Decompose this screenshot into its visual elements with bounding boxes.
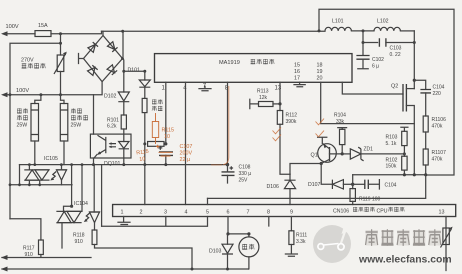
wire: R1107 to bottom node — [425, 165, 427, 175]
triac IC105 stubs — [29, 165, 39, 185]
svg-text:6.2k: 6.2k — [107, 124, 117, 130]
varistor arrow — [54, 53, 66, 74]
svg-text:R111: R111 — [296, 233, 307, 239]
svg-text:IC105: IC105 — [44, 156, 58, 162]
SCR element right of IC104 — [90, 211, 100, 213]
svg-text:Q2: Q2 — [391, 84, 398, 90]
svg-text:R119 100: R119 100 — [359, 196, 381, 202]
wire: main DC rail y=31 to L101 junction — [102, 30, 326, 32]
wire: AC input left arrow at y=33.7 — [1, 31, 8, 36]
wire: fuse to bridge top corner — [51, 31, 103, 35]
fan M101 风扇 — [239, 237, 259, 257]
resistor R119 body — [352, 184, 354, 188]
svg-text:470k: 470k — [432, 123, 443, 129]
capacitor C107 plates — [159, 152, 173, 156]
node dot branch to D101 — [122, 70, 125, 73]
svg-text:100V: 100V — [6, 24, 19, 30]
svg-text:DQ101: DQ101 — [104, 161, 121, 167]
opto phototransistor — [98, 135, 106, 154]
svg-text:6: 6 — [227, 210, 230, 216]
svg-text:www.elecfans.com: www.elecfans.com — [358, 255, 452, 266]
thermal fuse 超温保险 body — [142, 98, 147, 112]
wire: heater2 bottom to rail 164.6 — [63, 141, 65, 165]
wire: drain column from rail — [413, 31, 415, 89]
svg-text:13: 13 — [275, 85, 282, 91]
zener diode ZD1 — [342, 153, 350, 155]
capacitor C107 plus mark — [158, 146, 162, 150]
svg-text:5. 1k: 5. 1k — [386, 141, 397, 147]
bridge diode top-right — [107, 42, 117, 52]
wire: D101 to thermal fuse — [144, 87, 146, 98]
svg-text:390k: 390k — [286, 119, 297, 125]
wire: Q1 collector node down — [321, 164, 332, 185]
node dot R105/C107 junction — [164, 142, 167, 145]
ground stub right of pin13 — [294, 82, 305, 87]
svg-text:Q1: Q1 — [311, 153, 318, 159]
svg-text:R113: R113 — [257, 89, 269, 95]
resistor R1107 470k body — [423, 149, 428, 165]
svg-text:L102: L102 — [377, 19, 389, 25]
thermistor RT101 body — [443, 228, 449, 245]
wire: pin1 column — [165, 82, 167, 144]
diode D102 — [118, 92, 129, 102]
svg-text:3.3k: 3.3k — [296, 239, 306, 245]
svg-text:150k: 150k — [386, 164, 397, 170]
diode D101 — [144, 71, 146, 80]
wire: bus y=226.2 — [102, 217, 208, 227]
opto trigger arrow IC104 — [85, 213, 89, 221]
varistor label 压敏电阻 — [22, 63, 46, 68]
wire: pin5 stub up — [207, 198, 209, 204]
wire: gate feed from U101 — [342, 82, 403, 94]
wire: left col corner to R117 — [10, 219, 41, 240]
diode D107 — [332, 180, 343, 189]
watermark text 电子发烧友 — [366, 230, 442, 246]
svg-text:ZD1: ZD1 — [364, 147, 374, 153]
wire: pin2 feed from rail — [144, 165, 146, 205]
wire: jog to heater 1 — [35, 95, 41, 104]
wire: IC104 left bottom stub — [61, 223, 63, 248]
watermark logo circle — [313, 225, 351, 263]
transistor Q1 — [318, 144, 337, 163]
resistor R102 body — [402, 156, 407, 170]
wire: pin4 column down to board — [185, 82, 187, 204]
svg-text:13: 13 — [439, 210, 445, 216]
wire: lower-left rail y=184.8 — [10, 184, 72, 186]
svg-text:C104: C104 — [433, 85, 445, 91]
wire: R112 down and over to D106 column — [280, 124, 290, 174]
wire: R1106 to R1107 — [425, 132, 427, 149]
wire: branch y=71.3 to D101 column — [124, 70, 145, 72]
resistor R103 body with top terminal — [401, 127, 408, 131]
svg-text:25W: 25W — [71, 123, 82, 129]
wire: varistor upper tap down — [60, 34, 62, 55]
wire: varistor bottom to 100V rail — [60, 72, 62, 95]
bridge AC left terminal bar — [79, 54, 84, 64]
svg-text:5: 5 — [206, 210, 209, 216]
resistor R118 body — [92, 230, 97, 245]
opto light arrows — [110, 144, 117, 147]
wire: pin9 down — [290, 217, 292, 231]
connector CN106 box — [113, 205, 456, 217]
wire: bridge right corner down to D102 — [122, 59, 125, 93]
svg-text:18: 18 — [317, 63, 323, 69]
triac IC105 body — [25, 170, 49, 180]
resistor R104 body with top terminal — [338, 128, 347, 130]
transistor Q2 bars — [403, 84, 406, 112]
resistor R111 body — [289, 231, 294, 245]
svg-text:7: 7 — [247, 210, 250, 216]
Q2 drain tap — [406, 88, 414, 90]
thermal fuse label 超温/保险 — [152, 99, 162, 111]
svg-text:IC104: IC104 — [74, 201, 88, 207]
svg-text:100V: 100V — [16, 88, 29, 94]
svg-text:19: 19 — [317, 69, 323, 75]
wire: R117 bottom rail y=257.5 — [2, 255, 91, 258]
svg-text:D106: D106 — [267, 184, 280, 190]
wire: R105 right lead — [164, 143, 166, 145]
wire: jog to heater 2 — [61, 95, 65, 104]
wire: x=101.6 column — [101, 165, 103, 227]
wire: pin6 column down — [227, 217, 229, 234]
svg-text:2: 2 — [140, 210, 143, 216]
svg-text:9: 9 — [290, 210, 293, 216]
svg-text:CN106: CN106 — [333, 209, 349, 215]
svg-text:470k: 470k — [432, 156, 443, 162]
svg-text:6 µ: 6 µ — [372, 63, 379, 69]
svg-text:C108: C108 — [239, 165, 251, 171]
bridge rectifier D100 diamond — [84, 36, 123, 82]
svg-text:12k: 12k — [259, 95, 268, 101]
wire: stub down from y=174.8 to D107 node — [352, 175, 354, 185]
annotation check marks 2 — [316, 119, 325, 125]
svg-text:R1107: R1107 — [432, 150, 447, 156]
wire: main top AC line from arrow to fuse — [6, 33, 35, 35]
annotation trace along pin8 column — [223, 86, 229, 165]
optocoupler DQ101 box — [90, 134, 131, 158]
resistor R1106 470k body — [423, 116, 428, 132]
svg-text:270V: 270V — [21, 58, 34, 64]
svg-text:R118: R118 — [73, 233, 85, 239]
capacitor C108 330u 25V — [230, 166, 234, 170]
svg-text:D107: D107 — [308, 182, 321, 188]
svg-text:220: 220 — [433, 91, 442, 97]
resistor R113 left terminal — [250, 99, 259, 108]
svg-text:R101: R101 — [107, 117, 119, 123]
svg-text:330 µ: 330 µ — [239, 171, 252, 177]
resistor R117 body — [39, 240, 44, 255]
svg-text:0. 22: 0. 22 — [390, 52, 401, 58]
annotation check marks — [273, 128, 282, 134]
wire: heater1 bottom to rail 164.6 — [34, 141, 36, 165]
svg-text:R112: R112 — [286, 113, 298, 119]
svg-text:15: 15 — [294, 63, 300, 69]
heater element 1 (辅助加热 25W) body — [31, 104, 39, 142]
wire: C107 to rail — [165, 155, 167, 164]
svg-text:C107: C107 — [180, 144, 193, 150]
opto trigger arrow IC105 — [52, 172, 56, 180]
svg-text:8: 8 — [267, 210, 270, 216]
ground at CN106 pin1 — [118, 217, 130, 225]
diode D103 — [227, 234, 229, 244]
svg-text:D102: D102 — [104, 94, 117, 100]
wire: pin13 column down — [445, 217, 447, 271]
wire: pin8 stub below — [268, 217, 270, 227]
annotation capacitor C107 marks — [156, 145, 173, 156]
svg-text:20: 20 — [317, 76, 323, 82]
wire: lower 100V rail to bridge bottom corner — [6, 82, 102, 95]
capacitor C104b — [353, 183, 365, 185]
svg-text:R102: R102 — [386, 157, 398, 163]
svg-text:R117: R117 — [23, 246, 35, 252]
wire: node line y=174.8 — [353, 174, 426, 176]
bridge diode bottom-left — [88, 65, 98, 75]
wire: bridge right corner up to main DC rail — [122, 31, 125, 58]
wire: arrow left on y=257.5 — [1, 255, 8, 260]
node dots on y=184.8 — [9, 183, 12, 186]
node dots on mid rail — [28, 163, 31, 166]
wire: mid horizontal rail — [20, 164, 229, 166]
svg-text:L101: L101 — [332, 19, 344, 25]
svg-text:16: 16 — [294, 69, 300, 75]
ground at pin7 — [199, 86, 211, 91]
wire: L-path pin18 to source column — [321, 82, 415, 123]
resistor R101 body — [121, 115, 126, 129]
wire: R118 bottom to horizontal y=246.1 — [95, 245, 193, 270]
node dot R105 left — [143, 142, 146, 145]
svg-text:R115: R115 — [162, 128, 175, 134]
resistor R113 body — [259, 102, 274, 107]
opto pins to rail — [94, 158, 124, 165]
svg-text:10: 10 — [164, 134, 170, 140]
svg-text:17: 17 — [294, 76, 300, 82]
SCR element right of IC105 — [57, 169, 67, 171]
wire: L102 to right corner — [400, 30, 414, 32]
svg-text:C103: C103 — [390, 46, 402, 52]
wire: lower return wire y=198 to R1107 column — [208, 175, 426, 199]
svg-text:200V: 200V — [180, 150, 193, 156]
capacitor C104 220 branch — [414, 80, 425, 89]
ground below R111 — [285, 245, 297, 257]
capacitor C102 6u — [362, 43, 364, 56]
triac IC104 body — [57, 211, 81, 222]
diode D106 — [289, 174, 291, 180]
svg-text:4: 4 — [185, 210, 188, 216]
wire: D106 to board pin9 — [289, 189, 291, 205]
wire: C103 branch — [363, 31, 378, 43]
wire: left parallel vertical x=19.5 — [19, 165, 21, 185]
svg-text:25V: 25V — [239, 178, 249, 184]
capacitor C103 0.22 — [379, 38, 386, 46]
svg-text:1: 1 — [121, 210, 124, 216]
bridge diode top-left — [88, 42, 98, 52]
thermistor arrow — [441, 230, 452, 248]
wire: branch y=43.3 to left vertical — [10, 43, 61, 219]
wire: fan bottom to rail — [248, 257, 250, 269]
wire: opto supply from 100V rail — [93, 95, 95, 134]
svg-text:R104: R104 — [334, 113, 346, 119]
svg-text:R1106: R1106 — [432, 117, 447, 123]
Q2 source tap — [406, 106, 414, 175]
triac IC104 right stub from rail — [81, 165, 83, 212]
opto LED diode — [123, 134, 125, 141]
svg-text:R103: R103 — [386, 135, 398, 141]
wire: arrow left on y=269 — [1, 267, 8, 272]
wire: D106 column up branch to Q1 collector node — [290, 164, 321, 175]
wire: D102 to R101 — [123, 102, 125, 115]
svg-text:10: 10 — [139, 156, 146, 163]
resistor R105 body (horizontal) — [148, 142, 164, 147]
heater 2 label 辅助/加热管/25W — [71, 108, 88, 120]
wire: lower 100V rail arrow — [1, 92, 8, 97]
resistor R112 390k body — [277, 111, 282, 125]
wire: pin8 column — [227, 82, 229, 164]
wire: top loop — [319, 9, 454, 175]
wire: pin13 column — [279, 82, 281, 110]
annotation resistor R115 (hand drawn) — [152, 122, 158, 138]
heater 1 label 辅助/加热/25W — [17, 108, 28, 120]
node junction dot at varistor tap — [59, 32, 62, 35]
op-amp U101 MA1919 box — [155, 54, 353, 83]
svg-text:3: 3 — [164, 210, 167, 216]
svg-text:25W: 25W — [17, 123, 28, 129]
wire: IC104 feed from rail — [71, 165, 73, 207]
wire: thermal fuse down to rail — [144, 113, 146, 165]
heater element 2 (辅助加热管 25W) body — [60, 104, 68, 142]
wire: between coils — [351, 30, 374, 32]
varistor RV101 body — [57, 55, 64, 72]
wire: to fan — [228, 234, 249, 237]
svg-text:MA1919: MA1919 — [219, 60, 240, 66]
svg-text:15A: 15A — [38, 23, 48, 29]
wire: R113 to pin13 column — [273, 103, 280, 105]
svg-text:22 µ: 22 µ — [180, 157, 191, 163]
node junction dot second tap — [59, 42, 62, 45]
wire: bottom rail y=269 — [2, 268, 249, 270]
wire: R101 to optocoupler — [123, 129, 125, 134]
bridge diode bottom-right — [107, 65, 117, 75]
svg-text:D103: D103 — [209, 249, 222, 255]
svg-text:CPU: CPU — [377, 209, 388, 215]
node dots on 100V rail — [9, 93, 12, 96]
svg-text:D101: D101 — [128, 67, 141, 73]
svg-text:C104: C104 — [385, 183, 397, 189]
svg-text:910: 910 — [75, 239, 84, 245]
svg-text:33k: 33k — [336, 119, 345, 125]
svg-text:C102: C102 — [372, 57, 384, 63]
